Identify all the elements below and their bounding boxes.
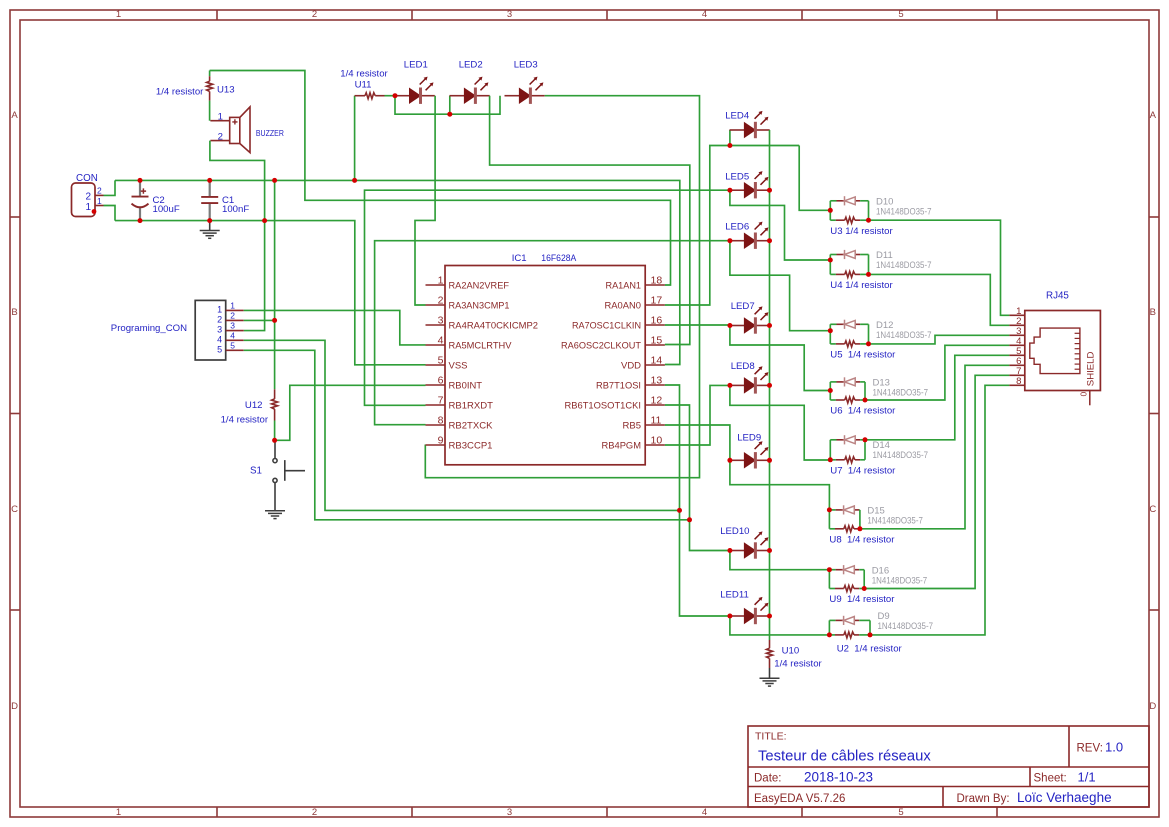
RJ45 SHIELD pin — [1089, 391, 1091, 406]
wire — [869, 220, 1010, 315]
junction C1 top — [207, 178, 212, 183]
svg-text:U8 1/4 resistor: U8 1/4 resistor — [829, 534, 895, 545]
svg-text:LED2: LED2 — [459, 60, 483, 71]
wire — [869, 274, 1010, 325]
wire U13 top — [209, 71, 211, 77]
svg-text:B: B — [11, 307, 17, 318]
wire U11 to LED1 — [385, 95, 396, 97]
svg-text:RA2AN2VREF: RA2AN2VREF — [449, 280, 510, 291]
svg-text:BUZZER: BUZZER — [256, 129, 284, 138]
svg-text:5: 5 — [898, 9, 903, 20]
svg-text:1: 1 — [438, 275, 444, 287]
ground symbol S1 — [265, 511, 285, 519]
svg-text:U7 1/4 resistor: U7 1/4 resistor — [830, 465, 896, 476]
connector CON — [72, 183, 104, 217]
junction C1 bottom — [207, 218, 212, 223]
wire CON pin1 to GND rail — [104, 206, 116, 221]
svg-text:14: 14 — [651, 355, 663, 367]
LED D-LED3 — [505, 77, 545, 104]
svg-text:RA3AN3CMP1: RA3AN3CMP1 — [449, 300, 510, 311]
wire U12 to S1 — [274, 421, 276, 441]
svg-text:13: 13 — [651, 375, 663, 387]
diode D11 with resistor U4 — [830, 250, 868, 278]
svg-text:RA5MCLRTHV: RA5MCLRTHV — [449, 340, 513, 351]
wire — [860, 365, 1010, 529]
svg-text:U10: U10 — [782, 646, 800, 657]
wire — [865, 355, 1009, 440]
svg-text:A: A — [11, 110, 18, 121]
junction D15 output — [857, 526, 862, 531]
diode D9 with resistor U2 — [829, 616, 870, 638]
LED D-LED7 — [730, 306, 770, 333]
svg-text:RB5: RB5 — [623, 420, 642, 431]
wire — [665, 385, 730, 445]
svg-text:3: 3 — [507, 9, 512, 20]
svg-text:16F628A: 16F628A — [541, 253, 577, 264]
wire — [730, 385, 830, 460]
IC1 pin 16 RA7OSC1CLKIN — [645, 324, 665, 326]
svg-text:1: 1 — [116, 807, 121, 818]
junction D10 input — [828, 208, 833, 213]
svg-text:RB7T1OSI: RB7T1OSI — [596, 380, 641, 391]
svg-text:S1: S1 — [250, 466, 262, 477]
svg-text:A: A — [1150, 110, 1157, 121]
svg-text:LED4: LED4 — [725, 111, 750, 122]
wire — [730, 326, 830, 391]
switch S1 — [273, 440, 305, 511]
svg-text:5: 5 — [230, 340, 235, 350]
svg-text:B: B — [1150, 307, 1156, 318]
RJ45 pin 7 — [1009, 374, 1024, 376]
junction LED11 anode — [727, 614, 732, 619]
svg-text:1/4 resistor: 1/4 resistor — [340, 69, 388, 80]
svg-text:1/4 resistor: 1/4 resistor — [156, 87, 204, 98]
junction D14 input — [828, 457, 833, 462]
ground below C1 — [209, 221, 211, 231]
wire bus to LED2 anode — [449, 96, 451, 115]
RJ45 pin 4 — [1009, 344, 1024, 346]
wire — [665, 425, 730, 460]
svg-text:U3 1/4 resistor: U3 1/4 resistor — [830, 226, 893, 237]
junction U11 VDD — [352, 178, 357, 183]
junction LED7 anode — [727, 323, 732, 328]
junction D9 output — [868, 632, 873, 637]
svg-text:U5 1/4 resistor: U5 1/4 resistor — [830, 349, 896, 360]
svg-text:4: 4 — [702, 9, 707, 20]
Programing_CON pin 1 — [226, 309, 244, 311]
junction LED6 cathode — [767, 238, 772, 243]
svg-text:4: 4 — [438, 335, 444, 347]
svg-text:RB6T1OSOT1CKI: RB6T1OSOT1CKI — [565, 400, 642, 411]
junction LED8 anode — [727, 383, 732, 388]
svg-text:RJ45: RJ45 — [1046, 291, 1069, 302]
junction D15 input — [827, 507, 832, 512]
svg-text:RA1AN1: RA1AN1 — [606, 280, 642, 291]
svg-text:TITLE:: TITLE: — [755, 731, 787, 743]
svg-text:6: 6 — [438, 375, 444, 387]
svg-text:3: 3 — [507, 807, 512, 818]
svg-text:12: 12 — [651, 395, 663, 407]
wire — [244, 319, 275, 321]
junction LED2 anode bus — [447, 112, 452, 117]
svg-text:2: 2 — [97, 186, 102, 196]
IC1 pin 4 RA5MCLRTHV — [426, 344, 446, 346]
wire — [730, 241, 830, 331]
IC1 pin 7 RB1RXDT — [426, 404, 446, 406]
wire — [730, 616, 830, 635]
wire — [730, 460, 830, 510]
wire — [274, 180, 276, 389]
svg-text:U12: U12 — [245, 400, 263, 411]
svg-text:1N4148DO35-7: 1N4148DO35-7 — [873, 450, 929, 461]
diode D13 with resistor U6 — [830, 377, 865, 403]
junction buzzer GND — [262, 218, 267, 223]
LED D-LED5 — [730, 171, 770, 198]
svg-text:2: 2 — [217, 314, 222, 324]
svg-text:RB0INT: RB0INT — [449, 380, 483, 391]
diode D15 with resistor U8 — [829, 505, 860, 532]
diode D16 with resistor U9 — [829, 565, 864, 591]
IC1 pin 3 RA4RA4T0CKICMP2 — [426, 324, 446, 326]
LED D-LED1 — [395, 77, 435, 104]
diode D14 with resistor U7 — [830, 435, 865, 463]
junction D11 input — [828, 258, 833, 263]
svg-text:2: 2 — [312, 9, 317, 20]
junction VDD vertical — [272, 178, 277, 183]
svg-text:100uF: 100uF — [153, 204, 180, 215]
svg-text:1N4148DO35-7: 1N4148DO35-7 — [876, 260, 932, 271]
svg-text:Testeur de câbles réseaux: Testeur de câbles réseaux — [758, 749, 931, 765]
svg-text:LED6: LED6 — [725, 222, 749, 233]
wire U11 left to VDD rail — [354, 96, 356, 181]
svg-text:LED1: LED1 — [404, 60, 428, 71]
IC1 pin 1 RA2AN2VREF — [426, 284, 446, 286]
junction D13 input — [828, 388, 833, 393]
svg-text:1: 1 — [230, 301, 235, 311]
wire — [665, 146, 799, 306]
LED D-LED11 — [730, 597, 770, 624]
svg-text:11: 11 — [651, 415, 662, 427]
svg-text:1.0: 1.0 — [1105, 740, 1123, 755]
svg-text:D: D — [11, 701, 18, 712]
wire — [210, 141, 265, 331]
wire — [244, 340, 680, 510]
wire — [665, 324, 730, 326]
wire — [244, 350, 690, 520]
svg-text:RA0AN0: RA0AN0 — [605, 300, 642, 311]
junction LED5 cathode — [767, 188, 772, 193]
svg-text:U6 1/4 resistor: U6 1/4 resistor — [830, 406, 896, 417]
svg-text:3: 3 — [230, 321, 235, 331]
svg-text:4: 4 — [230, 330, 235, 340]
junction D10 output — [866, 218, 871, 223]
svg-text:U9 1/4 resistor: U9 1/4 resistor — [829, 594, 895, 605]
LED D-LED10 — [730, 531, 770, 558]
wire — [490, 96, 690, 345]
junction LED7 cathode — [767, 323, 772, 328]
svg-text:5: 5 — [217, 344, 222, 354]
svg-text:1/1: 1/1 — [1078, 770, 1096, 785]
IC1 pin 13 RB7T1OSI — [645, 384, 665, 386]
junction U12 S1 RB0 — [272, 438, 277, 443]
junction C2 top — [138, 178, 143, 183]
junction pin12 net — [687, 517, 692, 522]
wire — [244, 310, 426, 345]
LED D-LED4 — [730, 111, 770, 138]
RJ45 pin 6 — [1009, 364, 1024, 366]
junction LED9 anode — [727, 458, 732, 463]
svg-text:1: 1 — [218, 112, 223, 123]
IC1 pin 14 VDD — [645, 364, 665, 366]
junction LED9 cathode — [767, 458, 772, 463]
capacitor C2 100uF — [139, 180, 141, 196]
Programing_CON pin 3 — [226, 330, 244, 332]
svg-text:1N4148DO35-7: 1N4148DO35-7 — [876, 207, 932, 218]
svg-text:0: 0 — [1079, 392, 1089, 397]
junction D14 output — [863, 437, 868, 442]
svg-text:RA4RA4T0CKICMP2: RA4RA4T0CKICMP2 — [449, 320, 539, 331]
svg-text:RB3CCP1: RB3CCP1 — [449, 440, 493, 451]
svg-text:2: 2 — [218, 131, 223, 142]
svg-text:1: 1 — [97, 196, 102, 206]
svg-text:17: 17 — [651, 295, 663, 307]
svg-text:RB4PGM: RB4PGM — [602, 440, 642, 451]
svg-text:LED11: LED11 — [720, 589, 749, 600]
svg-text:C: C — [1149, 504, 1156, 515]
diode D12 with resistor U5 — [830, 320, 868, 347]
junction D12 input — [828, 328, 833, 333]
svg-text:7: 7 — [438, 395, 444, 407]
diode D10 with resistor U3 — [830, 196, 868, 223]
svg-text:LED3: LED3 — [514, 60, 538, 71]
junction LED10 anode — [727, 548, 732, 553]
junction D9 input — [827, 632, 832, 637]
svg-text:VSS: VSS — [449, 360, 468, 371]
connector RJ45 — [1025, 311, 1101, 391]
IC1 pin 18 RA1AN1 — [645, 284, 665, 286]
svg-text:9: 9 — [438, 435, 444, 447]
wire — [395, 96, 500, 115]
junction LED10 cathode — [767, 548, 772, 553]
resistor U10 1/4 resistor — [769, 640, 771, 648]
junction C2 bottom — [138, 218, 143, 223]
IC1 pin 17 RA0AN0 — [645, 304, 665, 306]
Programing_CON pin 2 — [226, 319, 244, 321]
wire — [869, 335, 1010, 344]
wire GND rail to IC pin5 VSS — [115, 221, 426, 365]
svg-text:2: 2 — [438, 295, 444, 307]
IC U-IC1 16F628A — [445, 266, 645, 465]
wire — [864, 375, 1009, 588]
junction D16 output — [862, 586, 867, 591]
RJ45 pin 1 — [1009, 314, 1024, 316]
junction LED4 anode — [727, 143, 732, 148]
svg-text:1/4 resistor: 1/4 resistor — [774, 659, 822, 670]
svg-text:2: 2 — [312, 807, 317, 818]
connector Programing_CON — [195, 300, 226, 360]
wire — [799, 146, 830, 211]
wire — [730, 551, 830, 570]
IC1 pin 5 VSS — [426, 364, 446, 366]
LED D-LED9 — [730, 441, 770, 468]
svg-text:IC1: IC1 — [512, 253, 527, 264]
wire LED4 anode drop — [729, 130, 731, 146]
svg-text:VDD: VDD — [621, 360, 641, 371]
svg-text:4: 4 — [702, 807, 707, 818]
svg-text:U4 1/4 resistor: U4 1/4 resistor — [830, 280, 893, 291]
svg-text:1: 1 — [217, 304, 222, 314]
svg-text:RA7OSC1CLKIN: RA7OSC1CLKIN — [572, 320, 641, 331]
svg-text:RB1RXDT: RB1RXDT — [449, 400, 494, 411]
IC1 pin 9 RB3CCP1 — [426, 444, 446, 446]
wire — [415, 96, 435, 305]
svg-text:1N4148DO35-7: 1N4148DO35-7 — [878, 621, 934, 632]
svg-text:U11: U11 — [355, 80, 372, 91]
buzzer LS1 — [210, 120, 229, 122]
LED D-LED6 — [730, 222, 770, 249]
svg-text:U13: U13 — [217, 85, 235, 96]
junction LED6 anode — [727, 238, 732, 243]
svg-text:10: 10 — [651, 435, 663, 447]
svg-text:5: 5 — [898, 807, 903, 818]
svg-text:LED9: LED9 — [737, 433, 761, 444]
RJ45 pin 2 — [1009, 324, 1024, 326]
RJ45 pin 8 — [1009, 384, 1024, 386]
svg-text:1N4148DO35-7: 1N4148DO35-7 — [867, 516, 923, 527]
junction D11 output — [866, 272, 871, 277]
IC1 pin 10 RB4PGM — [645, 444, 665, 446]
wire — [865, 345, 1009, 400]
svg-text:Loïc Verhaeghe: Loïc Verhaeghe — [1017, 790, 1112, 805]
capacitor C1 100nF — [209, 180, 211, 197]
svg-text:1: 1 — [85, 202, 91, 213]
svg-text:Date:: Date: — [754, 773, 782, 785]
title block — [748, 726, 1149, 807]
junction ProgCON pin2 — [272, 318, 277, 323]
svg-text:LED7: LED7 — [731, 301, 755, 312]
svg-text:1N4148DO35-7: 1N4148DO35-7 — [873, 388, 929, 399]
Programing_CON pin 4 — [226, 339, 244, 341]
wire — [665, 405, 730, 551]
junction LED11 cathode — [767, 614, 772, 619]
svg-text:2: 2 — [230, 311, 235, 321]
svg-text:LED5: LED5 — [725, 171, 749, 182]
wire — [275, 385, 426, 440]
svg-text:LED10: LED10 — [720, 526, 749, 537]
RJ45 pin 5 — [1009, 354, 1024, 356]
svg-text:1/4 resistor: 1/4 resistor — [221, 415, 269, 426]
wire U13 to buzzer pin1 — [209, 101, 211, 121]
svg-text:8: 8 — [438, 415, 444, 427]
wire — [365, 190, 730, 405]
wire — [425, 96, 699, 478]
junction LED8 cathode — [767, 383, 772, 388]
svg-text:15: 15 — [651, 335, 663, 347]
IC1 pin 15 RA6OSC2CLKOUT — [645, 344, 665, 346]
LED D-LED8 — [730, 366, 770, 393]
svg-text:RB2TXCK: RB2TXCK — [449, 420, 494, 431]
IC1 pin 8 RB2TXCK — [426, 424, 446, 426]
wire — [730, 190, 830, 260]
svg-text:5: 5 — [438, 355, 444, 367]
IC1 pin 6 RB0INT — [426, 384, 446, 386]
svg-text:SHIELD: SHIELD — [1086, 351, 1097, 386]
svg-text:1N4148DO35-7: 1N4148DO35-7 — [876, 330, 932, 341]
resistor U12 1/4 resistor — [274, 389, 276, 399]
wire VDD rail to IC pin14 — [115, 180, 680, 364]
RJ45 jack drawing — [1030, 328, 1080, 374]
svg-text:D: D — [1149, 701, 1156, 712]
Programing_CON pin 5 — [226, 349, 244, 351]
IC1 pin 2 RA3AN3CMP1 — [426, 304, 446, 306]
wire — [375, 241, 730, 425]
ground symbol C1 — [200, 231, 220, 239]
svg-text:LED8: LED8 — [731, 361, 755, 372]
junction D13 output — [863, 398, 868, 403]
svg-text:3: 3 — [438, 315, 444, 327]
junction D16 input — [827, 567, 832, 572]
svg-text:3: 3 — [217, 325, 222, 335]
svg-text:CON: CON — [76, 173, 98, 184]
wire CON pin2 to VDD rail — [104, 180, 116, 195]
wire — [210, 71, 671, 286]
svg-text:1N4148DO35-7: 1N4148DO35-7 — [872, 575, 928, 586]
svg-text:U2 1/4 resistor: U2 1/4 resistor — [837, 644, 903, 655]
svg-text:100nF: 100nF — [222, 204, 249, 215]
svg-text:16: 16 — [651, 315, 663, 327]
svg-text:Programing_CON: Programing_CON — [111, 323, 187, 334]
wire — [665, 385, 730, 616]
RJ45 pin 3 — [1009, 334, 1024, 336]
svg-text:REV:: REV: — [1077, 743, 1103, 755]
LED D-LED2 — [450, 77, 490, 104]
svg-text:EasyEDA V5.7.26: EasyEDA V5.7.26 — [754, 793, 845, 805]
svg-text:2018-10-23: 2018-10-23 — [804, 770, 873, 785]
IC1 pin 12 RB6T1OSOT1CKI — [645, 404, 665, 406]
svg-text:Sheet:: Sheet: — [1034, 773, 1067, 785]
svg-text:1: 1 — [116, 9, 121, 20]
junction LED1 anode — [393, 93, 398, 98]
svg-text:18: 18 — [651, 275, 663, 287]
svg-text:C: C — [11, 504, 18, 515]
svg-text:Drawn By:: Drawn By: — [957, 793, 1010, 805]
ground symbol U10 — [760, 678, 780, 686]
wire — [769, 130, 771, 640]
svg-text:8: 8 — [1016, 376, 1021, 387]
junction pin13 net — [677, 508, 682, 513]
junction D12 output — [866, 341, 871, 346]
svg-text:RA6OSC2CLKOUT: RA6OSC2CLKOUT — [561, 340, 641, 351]
wire — [870, 385, 1009, 635]
IC1 pin 11 RB5 — [645, 424, 665, 426]
svg-text:4: 4 — [217, 334, 222, 344]
junction LED5 anode — [727, 188, 732, 193]
